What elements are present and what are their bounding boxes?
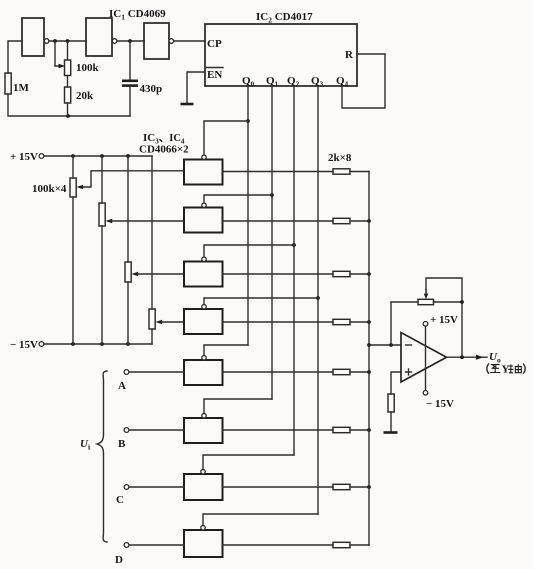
wire P4 wiper to switch S4 input xyxy=(156,320,185,325)
potentiometer P3 100k xyxy=(125,156,131,344)
label (to Y axis) xyxy=(487,364,525,376)
wire R3 to bus xyxy=(350,273,369,275)
wire S8 control to Q3 xyxy=(203,514,318,526)
svg-text:CD4066×2: CD4066×2 xyxy=(139,144,189,156)
node feedback tap xyxy=(389,343,393,347)
svg-text:D: D xyxy=(115,554,123,566)
wire S5 control to Q0 xyxy=(204,345,248,356)
arrow output xyxy=(476,355,487,360)
node bus to op-amp xyxy=(367,343,371,347)
wire S3 control to Q2 xyxy=(204,245,294,257)
node Q0 to switch S1 control xyxy=(246,119,250,123)
resistor R6 2k xyxy=(333,427,350,432)
svg-text:− 15V: − 15V xyxy=(10,339,38,351)
pin EN (active low) xyxy=(207,68,224,82)
wire +15V supply to op-amp xyxy=(425,326,427,391)
node rail P1 xyxy=(71,154,75,158)
resistor R2 2k xyxy=(333,218,350,223)
svg-text:100k: 100k xyxy=(76,62,100,74)
wire inverter U1A input from feedback node xyxy=(8,41,22,73)
wire R8 to bus xyxy=(350,544,369,546)
wire P3 wiper to switch S3 input xyxy=(132,272,185,277)
potentiometer 100k xyxy=(65,41,100,76)
wire 100k wiper arm xyxy=(55,41,65,68)
svg-text:+ 15V: + 15V xyxy=(10,151,38,163)
node rail P3 xyxy=(126,154,130,158)
wire R6 to bus xyxy=(350,429,369,431)
wire R1 to bus xyxy=(350,171,369,173)
terminal +15V xyxy=(39,154,44,159)
potentiometer P4 100k xyxy=(149,156,155,344)
wire S4 control to Q3 xyxy=(204,298,318,305)
resistor R4 2k xyxy=(333,319,350,324)
op IC2 CD4017 box xyxy=(205,24,357,86)
node bus row7 xyxy=(367,485,371,489)
inverter U1A (CD4069 gate 1) xyxy=(22,18,49,56)
wire S6 output xyxy=(223,429,334,431)
node wiper tap xyxy=(53,39,57,43)
node Rf right xyxy=(460,300,464,304)
svg-text:− 15V: − 15V xyxy=(426,398,454,410)
terminal input C xyxy=(124,485,129,490)
wire U1C output to CP xyxy=(174,40,205,42)
brace Ui inputs xyxy=(97,371,107,542)
resistor 20k xyxy=(65,76,95,117)
wire -15V rail xyxy=(44,343,152,345)
svg-text:Q3: Q3 xyxy=(311,75,324,88)
wire EN to ground xyxy=(187,72,205,104)
wire D to S8 xyxy=(129,544,184,546)
resistor R7 2k xyxy=(333,484,350,489)
node bus row2 xyxy=(367,219,371,223)
node rail2 P2 xyxy=(100,342,104,346)
analog switch S6 (CD4066) xyxy=(184,414,223,444)
svg-text:CP: CP xyxy=(207,38,222,50)
analog switch S3 (CD4066) xyxy=(184,257,223,287)
node rail P2 xyxy=(100,154,104,158)
potentiometer Rf (feedback) xyxy=(418,289,434,305)
capacitor C1 430p xyxy=(122,41,162,116)
wire op-amp noninverting input xyxy=(391,372,401,394)
wire S7 control to Q2 xyxy=(203,455,294,470)
wire C to S7 xyxy=(129,486,184,488)
svg-text:IC1 CD4069: IC1 CD4069 xyxy=(109,8,166,22)
resistor 1M xyxy=(5,73,30,94)
terminal input B xyxy=(124,428,129,433)
node Q1 to switch S2 control xyxy=(270,193,274,197)
resistor R5 2k xyxy=(333,369,350,374)
analog switch S4 (CD4066) xyxy=(184,305,223,335)
wire +15V rail xyxy=(44,155,152,157)
svg-text:R: R xyxy=(345,49,354,61)
label IC3 IC4 CD4066 x2 xyxy=(139,132,189,156)
svg-text:2k×8: 2k×8 xyxy=(328,152,352,164)
wire 1M bottom to bottom rail xyxy=(8,94,130,116)
wire Q1 column xyxy=(271,86,273,399)
resistor R8 2k xyxy=(333,542,350,547)
analog switch S1 (CD4066) xyxy=(184,155,223,185)
svg-text:Q4: Q4 xyxy=(336,75,349,88)
node Q3 to switch S4 control xyxy=(316,296,320,300)
potentiometer P2 100k xyxy=(99,156,105,344)
node bus row4 xyxy=(367,320,371,324)
svg-text:IC2 CD4017: IC2 CD4017 xyxy=(256,11,313,25)
svg-text:1M: 1M xyxy=(13,82,30,94)
node rail2 P3 xyxy=(126,342,130,346)
node capacitor top xyxy=(128,39,132,43)
wire S4 output xyxy=(223,321,334,323)
wire U1A output to U1B input xyxy=(49,40,86,42)
svg-text:C: C xyxy=(116,494,124,506)
inverter U1C (CD4069 gate 3) xyxy=(144,23,174,59)
wire U1B output to U1C input xyxy=(117,40,144,42)
node bus row5 xyxy=(367,370,371,374)
node 100k top tap xyxy=(66,39,70,43)
wire op-amp output xyxy=(447,356,478,358)
wire bus to op-amp inverting input xyxy=(369,344,401,346)
terminal input D xyxy=(124,543,129,548)
wire P1 wiper to switch S1 input xyxy=(77,171,185,190)
wire summing bus xyxy=(368,172,370,546)
terminal +15V op-amp xyxy=(423,322,428,327)
wire S2 control to Q1 xyxy=(204,195,272,203)
wire S7 output xyxy=(223,486,334,488)
terminal -15V xyxy=(39,342,44,347)
analog switch S2 (CD4066) xyxy=(184,203,223,233)
svg-text:B: B xyxy=(118,438,126,450)
wire R7 to bus xyxy=(350,486,369,488)
node bus row3 xyxy=(367,272,371,276)
node rail2 P1 xyxy=(71,342,75,346)
svg-text:430p: 430p xyxy=(140,83,163,95)
wire Q3 column xyxy=(317,86,319,514)
svg-text:EN: EN xyxy=(207,69,222,81)
wire B to S6 xyxy=(129,429,184,431)
wire R4 to bus xyxy=(350,321,369,323)
svg-text:Q2: Q2 xyxy=(287,75,300,88)
svg-text:A: A xyxy=(118,380,126,392)
node bottom rail / 20k junction xyxy=(66,114,70,118)
resistor Rp (noninverting to ground) xyxy=(388,394,394,412)
wire R5 to bus xyxy=(350,371,369,373)
node output xyxy=(460,355,464,359)
svg-text:20k: 20k xyxy=(76,90,94,102)
terminal -15V op-amp xyxy=(423,391,428,396)
ground (op-amp input) xyxy=(384,431,398,434)
potentiometer P1 100k xyxy=(70,156,76,344)
wire S6 control to Q1 xyxy=(204,399,272,414)
analog switch S5 (CD4066) xyxy=(184,356,223,386)
wire S5 output xyxy=(223,371,334,373)
wire S3 output xyxy=(223,273,334,275)
wire R to Q4 reset loop xyxy=(342,54,385,108)
svg-text:Ui: Ui xyxy=(80,438,90,451)
node bus row6 xyxy=(367,428,371,432)
wire S1 control to Q0 xyxy=(204,121,248,155)
ground (EN) xyxy=(181,103,194,106)
wire Rf wiper loop to output node xyxy=(426,278,462,357)
analog switch S8 (CD4066) xyxy=(184,526,223,558)
resistor R3 2k xyxy=(333,271,350,276)
svg-text:100k×4: 100k×4 xyxy=(32,183,67,195)
op-amp U5 xyxy=(401,333,447,383)
wire feedback up from inverting input xyxy=(391,302,418,345)
inverter U1B (CD4069 gate 2) xyxy=(86,18,117,56)
wire Q2 column xyxy=(293,86,295,455)
wire P2 wiper to switch S2 input xyxy=(106,219,185,224)
analog switch S7 (CD4066) xyxy=(184,470,223,501)
wire S1 output xyxy=(223,171,334,173)
svg-text:+ 15V: + 15V xyxy=(430,314,458,326)
wire Rf right end xyxy=(434,301,463,303)
node Q2 to switch S3 control xyxy=(292,243,296,247)
wire S2 output xyxy=(223,220,334,222)
wire Q0 column xyxy=(247,86,249,345)
resistor R1 2k xyxy=(333,169,350,174)
svg-text:Uo: Uo xyxy=(489,351,501,365)
wire Rp to ground xyxy=(390,412,392,432)
wire R2 to bus xyxy=(350,220,369,222)
wire S8 output xyxy=(223,544,334,546)
wire A to S5 xyxy=(129,371,184,373)
terminal input A xyxy=(124,370,129,375)
